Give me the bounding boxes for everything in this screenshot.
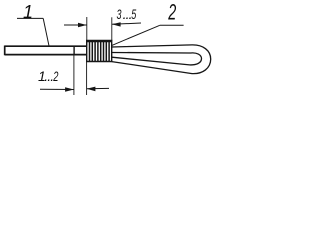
dimension 1...2 left extension line [73, 56, 75, 96]
loop outer contour [112, 45, 211, 74]
dimension 3...5 left extension line [86, 17, 88, 46]
wire W1 insulated conductor body [5, 46, 87, 56]
wrap band (coil) outline [87, 41, 112, 62]
position label 1 leader shelf [17, 17, 43, 19]
loop inner contour (eye) [112, 53, 202, 65]
svg-text:1: 1 [23, 2, 33, 22]
arrowhead 1...2 left (points right) [65, 87, 74, 92]
svg-text:2: 2 [53, 68, 59, 84]
dimension 1...2 right extension line [86, 62, 88, 95]
wrap band hatch turns [90, 41, 110, 62]
arrowhead 1...2 right (points left) [87, 87, 96, 92]
dimension 1...2 left dimension line [40, 88, 74, 90]
insulation end boundary [73, 46, 75, 55]
svg-text:2: 2 [168, 0, 177, 24]
dimension 1...2 right dimension line [87, 87, 109, 89]
arrowhead 3...5 left (points right) [78, 23, 87, 28]
position label 2 leader line [112, 25, 160, 45]
svg-text:5: 5 [131, 6, 136, 22]
position label 2 leader shelf [160, 24, 184, 26]
arrowhead 3...5 right (points left) [112, 22, 121, 26]
dimension 3...5 right extension line [111, 17, 113, 40]
dimension 3...5 right dimension line [112, 23, 141, 24]
svg-text:3: 3 [117, 6, 122, 22]
position label 1 leader line [43, 18, 49, 46]
dimension 3...5 left dimension line [64, 24, 87, 26]
